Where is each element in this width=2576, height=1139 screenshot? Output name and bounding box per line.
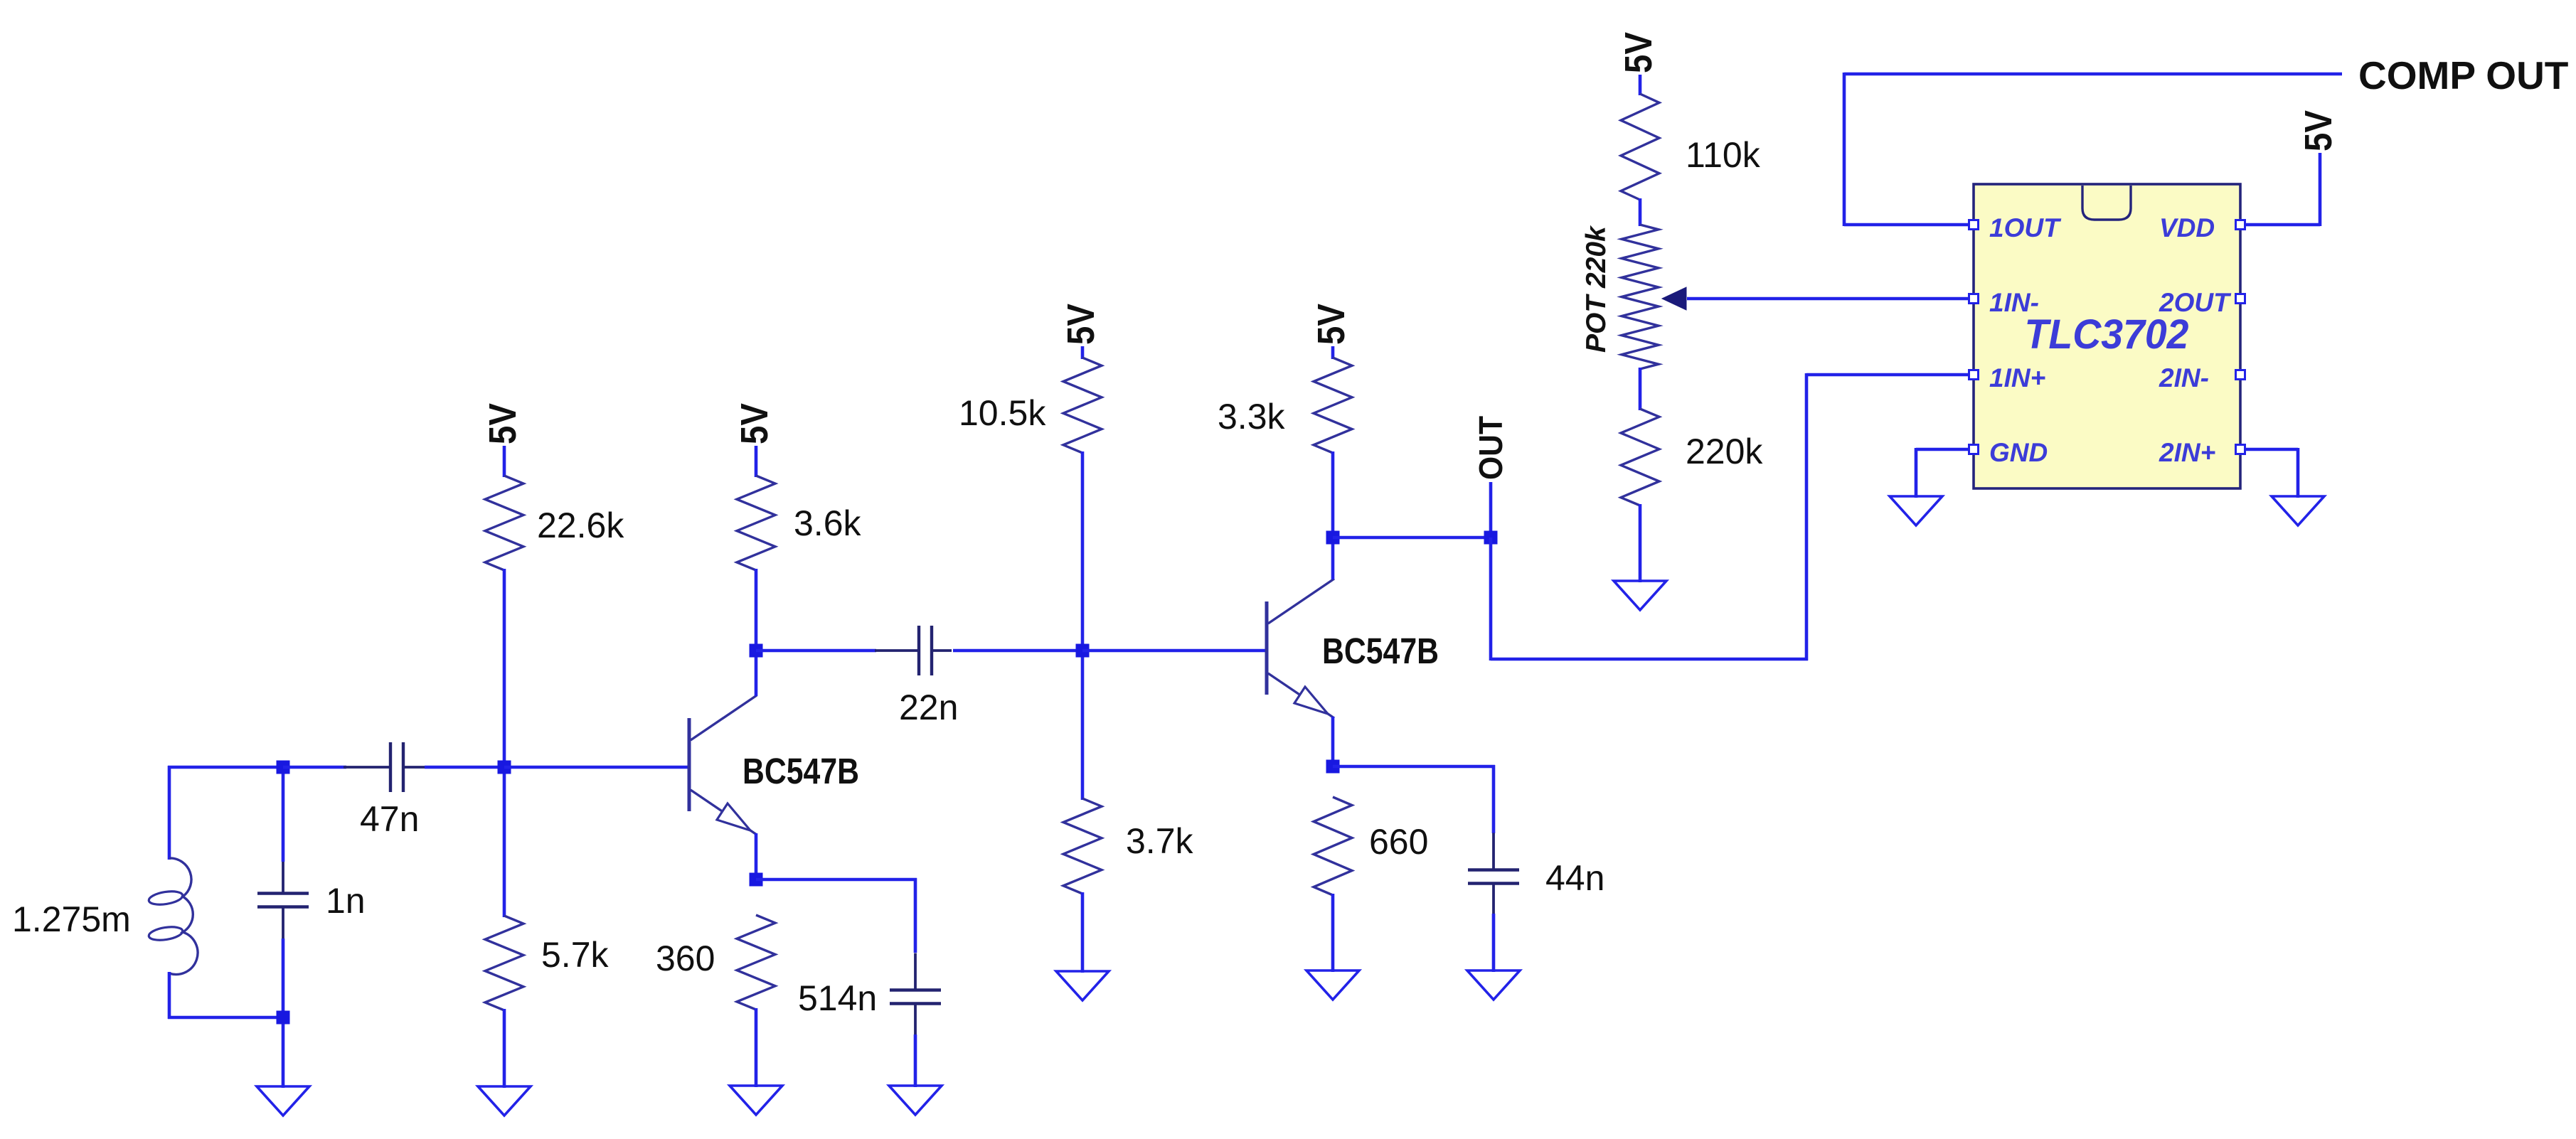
wire 5V to R9 <box>1639 75 1642 95</box>
wire 1OUT left <box>1844 223 1969 227</box>
transistor Q1 BC547B <box>689 695 757 835</box>
wire R10 to ground <box>1639 504 1642 582</box>
wire OUT stub <box>1489 482 1493 538</box>
transistor Q2 BC547B <box>1267 579 1334 718</box>
wire Q1 collector <box>755 651 758 696</box>
svg-text:47n: 47n <box>360 799 419 839</box>
svg-text:GND: GND <box>1989 438 2048 467</box>
svg-text:1OUT: 1OUT <box>1989 213 2062 242</box>
node Q2 collector <box>1326 531 1340 545</box>
node tank bottom <box>277 1011 290 1025</box>
svg-text:TLC3702: TLC3702 <box>2025 311 2189 358</box>
wire C5 bottom <box>1492 914 1496 972</box>
wire VDD up <box>2319 153 2322 226</box>
node tank top <box>277 761 290 774</box>
wire emitter to C3 <box>756 878 917 882</box>
wire tank top <box>168 766 283 769</box>
wire 47n to base node <box>425 766 504 769</box>
resistor R8 660 <box>1314 797 1352 895</box>
pin square 2IN- <box>2236 370 2245 380</box>
capacitor C1 1n <box>257 892 309 894</box>
svg-text:360: 360 <box>656 939 715 978</box>
wire VDD right <box>2245 223 2320 227</box>
wire Q2 emitter <box>1331 717 1335 768</box>
svg-text:22.6k: 22.6k <box>537 506 624 545</box>
wire C3 bottom <box>914 1034 917 1087</box>
ground C3 <box>889 1086 942 1115</box>
ground R2 <box>478 1086 531 1116</box>
wire R8 to ground <box>1331 894 1335 972</box>
wire 5V to R7 <box>1331 346 1335 359</box>
node Q1 emitter <box>750 873 763 887</box>
wire base node to Q1 <box>504 766 689 769</box>
resistor R9 110k <box>1621 94 1659 200</box>
wire pot to R10 <box>1639 368 1642 410</box>
resistor R3 3.6k <box>737 476 775 570</box>
svg-text:POT 220k: POT 220k <box>1581 225 1612 353</box>
svg-text:1IN-: 1IN- <box>1989 288 2039 317</box>
svg-text:5V: 5V <box>481 403 524 444</box>
potentiometer POT 220k <box>1622 225 1659 369</box>
svg-text:5V: 5V <box>2297 110 2340 151</box>
svg-text:1IN+: 1IN+ <box>1989 363 2045 392</box>
capacitor C2 47n <box>389 742 392 792</box>
svg-text:3.7k: 3.7k <box>1126 821 1194 861</box>
pin square 2OUT <box>2236 294 2245 304</box>
svg-text:514n: 514n <box>798 978 877 1018</box>
wire C3 top <box>914 878 917 953</box>
wire R2 to ground <box>503 1009 506 1088</box>
svg-text:1.275m: 1.275m <box>12 899 131 939</box>
resistor R2 5.7k <box>485 916 523 1010</box>
svg-text:22n: 22n <box>899 688 958 727</box>
resistor R7 3.3k <box>1314 358 1352 453</box>
node Q1 base <box>498 761 511 774</box>
wire GND pin down <box>1915 448 1918 498</box>
svg-text:110k: 110k <box>1686 135 1761 175</box>
wire C4 to Q2 base node <box>953 649 1082 653</box>
resistor R10 220k <box>1621 409 1659 506</box>
wire OUT right <box>1491 658 1808 661</box>
wire tank left lower <box>168 972 171 1019</box>
svg-text:BC547B: BC547B <box>743 751 859 791</box>
node OUT <box>1484 531 1498 545</box>
wire COMP OUT <box>1844 73 2342 76</box>
svg-text:2OUT: 2OUT <box>2159 288 2232 317</box>
svg-text:3.3k: 3.3k <box>1218 397 1286 437</box>
wire tank to 47n <box>283 766 346 769</box>
wire base node to Q2 <box>1082 649 1267 653</box>
svg-text:3.6k: 3.6k <box>794 503 862 543</box>
pin square 2IN+ <box>2236 445 2245 454</box>
wire 1n top <box>282 767 285 862</box>
pin square GND <box>1969 445 1979 454</box>
inductor L1 1.275m <box>148 858 198 975</box>
wire 1n bottom <box>282 939 285 1088</box>
wire tank bottom <box>168 1016 283 1020</box>
wire 2IN+ down <box>2296 448 2300 498</box>
svg-text:OUT: OUT <box>1472 416 1509 480</box>
ground R6 <box>1056 971 1109 1000</box>
svg-text:VDD: VDD <box>2159 213 2215 242</box>
pin square VDD <box>2236 220 2245 230</box>
svg-text:1n: 1n <box>326 881 366 921</box>
node Q1 collector <box>750 644 763 658</box>
wire tank left upper <box>168 766 171 860</box>
svg-text:2IN-: 2IN- <box>2159 363 2209 392</box>
wire R1 to base node <box>503 569 506 917</box>
svg-text:5.7k: 5.7k <box>541 935 610 975</box>
wire 5V to R3 <box>755 446 758 477</box>
resistor R6 3.7k <box>1063 798 1102 894</box>
wire emitter to C5 <box>1333 765 1495 769</box>
wire Q1 emitter <box>755 833 758 881</box>
wire C5 top <box>1492 765 1496 833</box>
capacitor C3 514n <box>890 988 941 991</box>
resistor R1 22.6k <box>485 476 523 570</box>
node Q2 emitter <box>1326 760 1340 774</box>
svg-text:2IN+: 2IN+ <box>2159 438 2215 467</box>
capacitor C5 44n <box>1468 868 1519 871</box>
pin square 1OUT <box>1969 220 1979 230</box>
node Q2 base <box>1076 644 1090 658</box>
ground GND pin <box>1890 496 1942 525</box>
wire 2IN+ right <box>2245 448 2298 451</box>
wire R5 to Q2 base node <box>1081 451 1085 800</box>
svg-text:COMP OUT: COMP OUT <box>2358 53 2568 97</box>
wire feedback up <box>1843 73 1846 226</box>
svg-text:5V: 5V <box>1617 32 1660 73</box>
wire Q2 collector <box>1331 538 1335 579</box>
ground R4 <box>730 1086 782 1115</box>
wire R7 to collector node <box>1331 451 1335 539</box>
wire collector to OUT <box>1333 536 1491 540</box>
wire R4 to ground <box>755 1008 758 1087</box>
wire OUT down <box>1489 538 1493 661</box>
svg-text:5V: 5V <box>1310 304 1353 345</box>
ground tank <box>257 1086 309 1116</box>
wire OUT to 1IN+ <box>1806 373 1974 377</box>
wire R9 to pot <box>1639 198 1642 226</box>
wire wiper to 1IN- <box>1687 297 1974 301</box>
resistor R4 360 <box>737 915 775 1010</box>
wire R6 to ground <box>1081 892 1085 973</box>
pin square 1IN- <box>1969 294 1979 304</box>
svg-text:5V: 5V <box>1060 304 1102 345</box>
wiper arrow <box>1662 287 1686 310</box>
op-amp U1 TLC3702 body <box>1974 184 2240 488</box>
svg-text:660: 660 <box>1369 822 1428 862</box>
wire OUT up <box>1805 373 1809 661</box>
svg-text:5V: 5V <box>733 403 776 444</box>
wire 5V to R1 <box>503 446 506 477</box>
ground pot <box>1614 581 1666 610</box>
ground R8 <box>1306 970 1359 1000</box>
wire Q1 collector to C4 <box>756 649 876 653</box>
wire R3 to collector node <box>755 569 758 652</box>
wire GND pin <box>1916 448 1969 451</box>
svg-text:BC547B: BC547B <box>1322 631 1439 671</box>
pin square 1IN+ <box>1969 370 1979 380</box>
svg-text:44n: 44n <box>1545 858 1604 898</box>
ground C5 <box>1467 970 1520 1000</box>
resistor R5 10.5k <box>1063 358 1102 453</box>
capacitor C4 22n <box>917 626 920 675</box>
wire 5V to R5 <box>1081 346 1085 359</box>
ground 2IN+ <box>2272 496 2324 525</box>
svg-text:220k: 220k <box>1686 432 1763 471</box>
svg-text:10.5k: 10.5k <box>959 393 1046 433</box>
